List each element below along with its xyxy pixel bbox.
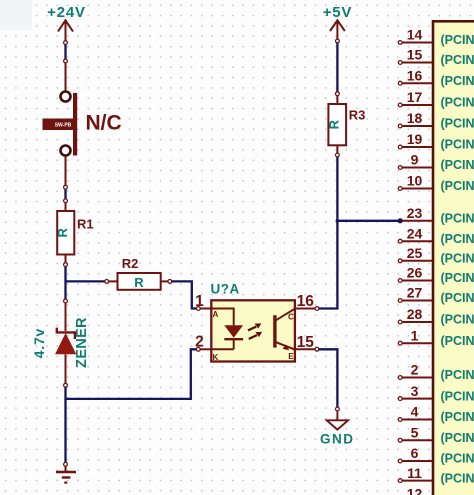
pin 26 (PCINT) <box>398 265 474 286</box>
svg-text:U?A: U?A <box>211 282 240 297</box>
svg-text:+24V: +24V <box>47 4 86 21</box>
pin 10 (PCINT) <box>398 173 474 194</box>
optocoupler U?A <box>195 282 319 363</box>
wire <box>66 280 106 282</box>
svg-text:(PCIN: (PCIN <box>441 334 474 348</box>
svg-text:(PCIN: (PCIN <box>441 96 474 110</box>
power +5V <box>323 4 353 43</box>
pin 16 (PCINT) <box>398 67 474 88</box>
svg-text:1: 1 <box>195 293 204 310</box>
pin 24 (PCINT) <box>398 225 474 246</box>
svg-text:4.7v: 4.7v <box>31 328 47 358</box>
pin 15 <box>315 347 319 351</box>
svg-text:(PCIN: (PCIN <box>441 158 474 172</box>
pin 25 (PCINT) <box>398 245 474 266</box>
svg-text:GND: GND <box>320 432 355 447</box>
wire <box>336 43 338 92</box>
svg-text:15: 15 <box>297 334 315 351</box>
wire <box>319 157 338 309</box>
svg-text:10: 10 <box>407 173 423 189</box>
svg-text:26: 26 <box>407 265 423 281</box>
svg-text:(PCIN: (PCIN <box>441 291 474 305</box>
svg-text:15: 15 <box>407 47 423 63</box>
svg-text:18: 18 <box>407 110 423 126</box>
svg-text:(PCIN: (PCIN <box>441 313 474 327</box>
svg-text:24: 24 <box>407 225 423 241</box>
pin 11 (PCINT) <box>398 465 474 486</box>
svg-text:C: C <box>288 312 294 321</box>
svg-text:R: R <box>134 275 144 290</box>
pin 19 (PCINT) <box>398 131 474 152</box>
svg-text:R1: R1 <box>77 217 94 232</box>
connector/IC body <box>433 21 474 495</box>
svg-text:9: 9 <box>411 152 419 168</box>
ground <box>56 462 76 482</box>
svg-text:(PCIN: (PCIN <box>441 271 474 285</box>
svg-text:16: 16 <box>297 293 315 310</box>
svg-text:R3: R3 <box>349 108 366 123</box>
pin 28 (PCINT) <box>398 306 474 327</box>
svg-text:+5V: +5V <box>323 4 353 21</box>
svg-text:(PCIN: (PCIN <box>441 179 474 193</box>
wire <box>172 281 197 308</box>
wire <box>319 349 338 407</box>
pin 4 (PCINT) <box>398 404 474 425</box>
svg-text:28: 28 <box>407 306 423 322</box>
svg-text:A: A <box>213 310 219 319</box>
svg-text:16: 16 <box>407 67 423 83</box>
svg-text:(PCIN: (PCIN <box>441 471 474 485</box>
svg-text:19: 19 <box>407 131 423 147</box>
svg-text:(PCIN: (PCIN <box>441 74 474 88</box>
wire <box>66 349 197 399</box>
pin 2 (PCINT) <box>398 362 474 383</box>
svg-text:(PCIN: (PCIN <box>441 212 474 226</box>
svg-text:23: 23 <box>407 205 423 221</box>
resistor R1 <box>55 199 94 267</box>
svg-text:27: 27 <box>407 285 423 301</box>
svg-text:17: 17 <box>407 89 423 105</box>
pin 27 (PCINT) <box>398 285 474 306</box>
svg-text:SW-PB: SW-PB <box>55 122 72 128</box>
wire <box>64 45 66 60</box>
svg-text:R: R <box>327 119 342 129</box>
wire <box>64 267 66 300</box>
pin 12 (partially visible) <box>407 486 423 495</box>
svg-text:(PCIN: (PCIN <box>441 452 474 466</box>
pin 1 (PCINT) <box>398 327 474 348</box>
pin 18 (PCINT) <box>398 110 474 131</box>
svg-text:(PCIN: (PCIN <box>441 33 474 47</box>
svg-text:(PCIN: (PCIN <box>441 431 474 445</box>
junction <box>336 219 340 223</box>
svg-text:(PCIN: (PCIN <box>441 53 474 67</box>
svg-text:(PCIN: (PCIN <box>441 368 474 382</box>
pin 17 (PCINT) <box>398 89 474 110</box>
svg-text:3: 3 <box>411 383 419 399</box>
svg-text:4: 4 <box>411 404 419 420</box>
svg-text:6: 6 <box>411 445 419 461</box>
svg-text:K: K <box>213 353 219 362</box>
svg-text:(PCIN: (PCIN <box>441 138 474 152</box>
phototransistor <box>273 315 276 347</box>
pin 16 <box>315 307 319 311</box>
pin 6 (PCINT) <box>398 445 474 466</box>
svg-text:(PCIN: (PCIN <box>441 252 474 266</box>
svg-text:25: 25 <box>407 245 423 261</box>
svg-text:2: 2 <box>411 362 419 378</box>
switch N/C <box>43 59 122 189</box>
pin 14 (PCINT) <box>398 27 474 48</box>
resistor R3 <box>327 92 366 157</box>
svg-text:2: 2 <box>195 334 204 351</box>
svg-text:(PCIN: (PCIN <box>441 410 474 424</box>
wire <box>339 220 399 222</box>
svg-text:(PCIN: (PCIN <box>441 389 474 403</box>
power +24V <box>47 4 86 45</box>
pin 2 <box>196 347 200 351</box>
power GND <box>320 407 355 447</box>
svg-text:(PCIN: (PCIN <box>441 232 474 246</box>
pin 3 (PCINT) <box>398 383 474 404</box>
pin 23 (PCINT) <box>398 205 474 226</box>
wire <box>64 387 66 463</box>
zener diode 4.7v <box>31 299 90 387</box>
junction <box>398 218 403 223</box>
svg-text:ZENER: ZENER <box>74 317 90 368</box>
svg-text:14: 14 <box>407 27 423 43</box>
svg-text:(PCIN: (PCIN <box>441 117 474 131</box>
photon arrows <box>248 323 262 339</box>
svg-text:5: 5 <box>411 425 419 441</box>
pin 1 <box>196 307 200 311</box>
svg-text:1: 1 <box>411 327 419 343</box>
resistor R2 <box>105 256 172 290</box>
pin 5 (PCINT) <box>398 425 474 446</box>
pin 9 (PCINT) <box>398 152 474 173</box>
svg-text:E: E <box>288 352 294 361</box>
svg-text:R2: R2 <box>122 256 139 271</box>
wire <box>64 189 66 199</box>
svg-text:N/C: N/C <box>86 112 122 135</box>
svg-text:12: 12 <box>407 486 423 495</box>
svg-text:11: 11 <box>407 465 422 481</box>
svg-text:R: R <box>55 227 70 237</box>
pin 15 (PCINT) <box>398 47 474 67</box>
